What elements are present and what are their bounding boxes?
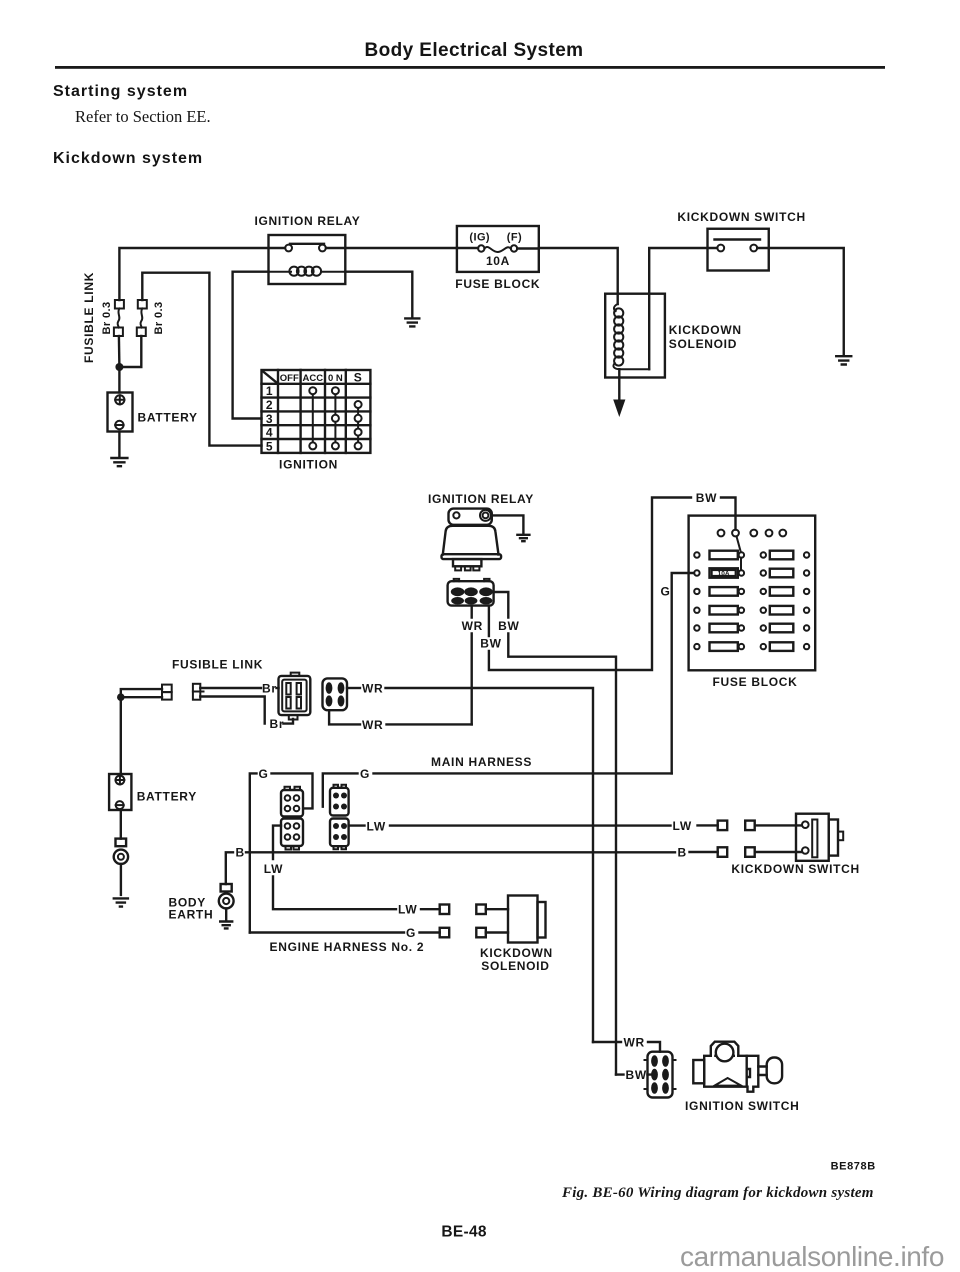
connector pins row 1 [451, 587, 465, 596]
ground (lower relay) [517, 535, 529, 541]
battery minus terminal [115, 421, 123, 429]
ignition switch barrel circle [716, 1044, 734, 1062]
svg-text:LW: LW [264, 862, 283, 876]
svg-text:IGNITION SWITCH: IGNITION SWITCH [685, 1099, 800, 1113]
relay pictorial bracket [449, 509, 492, 525]
svg-text:0 N: 0 N [328, 373, 343, 384]
svg-text:Refer to Section EE.: Refer to Section EE. [75, 107, 211, 126]
svg-text:FUSE BLOCK: FUSE BLOCK [713, 675, 798, 689]
svg-text:WR: WR [624, 1036, 645, 1050]
svg-text:Br 0.3: Br 0.3 [153, 302, 165, 335]
solenoid coil (top diagram) [614, 304, 618, 311]
svg-text:G: G [661, 585, 671, 599]
fusible link plug B [193, 684, 200, 692]
relay base [442, 554, 502, 559]
connector square B switch left [718, 847, 728, 857]
wire WR to ignition switch connector [593, 1042, 660, 1052]
battery (top diagram) [108, 393, 133, 432]
svg-text:IGNITION: IGNITION [279, 458, 338, 472]
wire G1: bracket down the left and to white connector [250, 773, 313, 932]
wire: battery negative down [120, 810, 122, 839]
wire WR1 continues right then down [386, 688, 594, 1042]
holder slots [286, 683, 290, 695]
svg-text:WR: WR [462, 619, 483, 633]
ground (kickdown switch, top) [836, 356, 851, 364]
wire: G square to solenoid [486, 931, 508, 933]
wire: battery to ground [118, 432, 120, 457]
svg-text:IGNITION RELAY: IGNITION RELAY [254, 214, 360, 228]
svg-text:G: G [406, 926, 416, 940]
ground (lower battery) [114, 898, 128, 906]
wire B: body earth up, right across to kickdown switch [226, 852, 718, 884]
connector square LW switch right [745, 821, 755, 831]
relay 3-pin connector (lower) [448, 581, 494, 605]
fuse element [485, 247, 511, 252]
relay bracket hole left [453, 512, 459, 518]
ground (battery, top diagram) [111, 458, 127, 466]
body earth terminal [221, 884, 232, 892]
kickdown switch contact holes [802, 821, 809, 828]
svg-text:G: G [360, 767, 370, 781]
wire: switch right to ground [757, 248, 844, 355]
wire: solenoid to kickdown switch [649, 248, 717, 369]
relay coil [269, 271, 292, 273]
wire: plug B to Br label (top strand) [200, 687, 261, 689]
wire: relay bracket to ground (lower) [492, 515, 524, 533]
svg-text:Br 0.3: Br 0.3 [101, 302, 113, 335]
svg-text:LW: LW [673, 819, 692, 833]
svg-text:Kickdown system: Kickdown system [53, 150, 203, 167]
wire BW2 continues into fuse block top [721, 498, 736, 530]
fuse block (lower diagram) [689, 516, 816, 671]
ground (body earth) [220, 922, 232, 929]
relay lower block [453, 559, 481, 566]
key head [767, 1058, 782, 1084]
fusible link 2 top square [138, 300, 147, 309]
wire: battery positive riser with two link feeds [121, 689, 162, 774]
svg-text:2: 2 [266, 398, 273, 412]
wire: link2 bottom to junction [119, 336, 141, 367]
svg-text:FUSIBLE LINK: FUSIBLE LINK [82, 272, 96, 363]
junction node (battery feed) [115, 363, 123, 371]
svg-text:Fig. BE-60 Wiring diagram for: Fig. BE-60 Wiring diagram for kickdown s… [561, 1185, 874, 1201]
svg-text:BE878B: BE878B [831, 1161, 876, 1173]
relay contact right [319, 245, 326, 252]
svg-text:(IG): (IG) [469, 232, 490, 244]
svg-text:BW: BW [626, 1068, 647, 1082]
wire WR2: black connector bottom pin down and right [329, 710, 360, 724]
svg-text:FUSIBLE LINK: FUSIBLE LINK [172, 658, 263, 672]
wire: fuse to block edge right [517, 247, 539, 249]
fuse block top terminals [718, 530, 787, 537]
ignition switch left stub [693, 1060, 704, 1083]
ignition switch body [704, 1056, 747, 1087]
wire: LW square to switch body [755, 824, 802, 826]
wire: body earth eyelet to ground [225, 908, 227, 920]
wire G: fuse block 10A left terminal down to main harness [672, 573, 694, 773]
wire: LW square to solenoid [486, 908, 508, 910]
header rule [55, 66, 885, 69]
wire G2: black connector up and right to fuse block riser [323, 773, 672, 806]
connector square B switch right [745, 847, 755, 857]
ignition key switch table [262, 370, 371, 453]
arrow below solenoid [618, 369, 620, 401]
fuse terminal left [478, 245, 484, 251]
ignition switch pictorial: mounting bracket [711, 1042, 739, 1056]
table row numbers [266, 384, 273, 453]
svg-text:KICKDOWN: KICKDOWN [669, 323, 742, 337]
svg-text:10A: 10A [718, 571, 730, 578]
connector square LW right [476, 905, 486, 915]
svg-text:B: B [236, 846, 245, 860]
wire BW2: relay connector pin down, over, up to fuse block [489, 498, 691, 671]
fusible link 2 bottom square [137, 328, 146, 337]
svg-text:ACC: ACC [303, 373, 324, 384]
svg-text:S: S [354, 371, 363, 385]
8-pin white connector bottom half [281, 819, 303, 847]
kickdown switch (lower) body [796, 814, 829, 861]
svg-text:BW: BW [498, 619, 519, 633]
wire LW2: black connector right to kickdown switch [349, 824, 718, 827]
8-pin white connector top half [281, 790, 303, 817]
connector square LW switch left [718, 821, 728, 831]
battery plus terminal (lower) [116, 776, 125, 785]
svg-text:4: 4 [266, 426, 273, 440]
svg-text:BE-48: BE-48 [441, 1224, 487, 1241]
ground (relay, top diagram) [405, 318, 419, 326]
kickdown switch contact right [750, 245, 757, 252]
svg-text:KICKDOWN SWITCH: KICKDOWN SWITCH [677, 210, 805, 224]
relay bracket hole right (double) [480, 510, 491, 521]
svg-text:BATTERY: BATTERY [138, 411, 198, 425]
ignition switch triangle mark [715, 1078, 742, 1086]
connector pins row 2 [451, 597, 464, 604]
fuse block box (top) [457, 226, 539, 272]
wire BW to ignition switch connector [616, 1073, 651, 1075]
svg-text:(F): (F) [507, 232, 522, 244]
wire WR2 continues right to relay WR drop [387, 723, 472, 725]
right column fuses [761, 551, 810, 651]
table header labels [280, 371, 363, 385]
wire: fuse block to solenoid coil top [539, 248, 618, 304]
kickdown switch bar [715, 238, 761, 240]
kickdown solenoid (lower) cap [538, 902, 546, 938]
svg-text:SOLENOID: SOLENOID [669, 337, 737, 351]
connector square G left [440, 928, 450, 938]
svg-text:3: 3 [266, 412, 273, 426]
wire BW1: relay connector right, down, over, down to ignition switch [494, 592, 616, 1075]
wire WR1: black connector to WR vertical junction [347, 687, 360, 689]
wire: relay right contact to fuse block [326, 247, 457, 249]
svg-text:1: 1 [266, 384, 273, 398]
svg-text:SOLENOID: SOLENOID [481, 959, 549, 973]
left column fuses [694, 551, 744, 651]
kickdown switch slot [812, 820, 817, 858]
svg-text:OFF: OFF [280, 373, 299, 384]
svg-text:ENGINE HARNESS No. 2: ENGINE HARNESS No. 2 [270, 940, 425, 954]
wire: junction to battery [118, 367, 120, 393]
ignition switch rear section [747, 1056, 759, 1092]
fusible link 1 top square [115, 300, 124, 309]
key shaft [758, 1067, 766, 1076]
wire: relay coil right to ground [345, 272, 412, 317]
wire LW row to connector squares [421, 908, 440, 910]
svg-text:KICKDOWN: KICKDOWN [480, 946, 553, 960]
svg-text:MAIN HARNESS: MAIN HARNESS [431, 755, 532, 769]
black 4-pin connector (lower fusible link) [323, 678, 348, 710]
svg-text:B: B [678, 846, 687, 860]
kickdown switch contact left [717, 245, 724, 252]
fusible link 2 element [141, 309, 143, 328]
svg-text:carmanualsonline.info: carmanualsonline.info [680, 1241, 944, 1272]
svg-text:Br: Br [270, 717, 285, 731]
fusible link 1 bottom square [114, 328, 123, 337]
relay can body [443, 526, 499, 555]
svg-text:IGNITION RELAY: IGNITION RELAY [428, 492, 534, 506]
fusible link 1 element [118, 309, 120, 328]
ignition relay box (top) [269, 235, 346, 284]
svg-text:KICKDOWN SWITCH: KICKDOWN SWITCH [731, 862, 859, 876]
battery plus terminal [115, 395, 124, 404]
svg-text:BW: BW [480, 637, 501, 651]
svg-text:BW: BW [696, 491, 717, 505]
link from BW terminal to fuse 1 [737, 536, 742, 570]
wire: B square to switch body [755, 851, 802, 853]
svg-text:LW: LW [398, 903, 417, 917]
wire: eyelet down to ground [120, 864, 122, 895]
battery cable terminal [116, 839, 127, 847]
wire LW1: white connector left side down [273, 826, 396, 910]
wire WR: relay connector down to harness WR joint [471, 606, 473, 725]
svg-text:LW: LW [367, 819, 386, 833]
svg-text:EARTH: EARTH [169, 908, 214, 922]
fusible link plug A [162, 685, 172, 693]
table contact circles [309, 387, 361, 449]
relay contact bar [290, 243, 324, 245]
kickdown switch tab [838, 832, 843, 841]
table contact lines [313, 394, 358, 442]
svg-text:5: 5 [266, 439, 273, 453]
8-pin black connector top half [330, 788, 349, 816]
battery minus terminal (lower) [116, 801, 124, 809]
fusible link holder (white connector) [279, 676, 311, 715]
8-pin black connector bottom half [330, 819, 349, 847]
svg-text:WR: WR [362, 718, 383, 732]
junction node (lower battery feed) [117, 693, 125, 701]
svg-text:10A: 10A [486, 254, 510, 268]
svg-text:FUSE BLOCK: FUSE BLOCK [455, 277, 540, 291]
relay pins [455, 566, 461, 570]
wire: lower Br to holder bottom tab [283, 719, 293, 724]
svg-text:Starting system: Starting system [53, 83, 188, 100]
wire: plug B bottom strand down to lower Br [200, 697, 264, 724]
connector square G right [476, 928, 486, 938]
wire: relay left contact to fusible link corner [119, 248, 285, 300]
svg-text:WR: WR [362, 682, 383, 696]
wire: link1 to junction [118, 336, 121, 367]
kickdown switch box (top) [708, 229, 769, 271]
kickdown switch right cap [829, 820, 838, 856]
kickdown solenoid box (top) [605, 294, 665, 378]
wire: link2 up and over to table row 5 [142, 273, 261, 446]
wire: into fuse block left [457, 247, 478, 249]
svg-text:Body Electrical System: Body Electrical System [365, 40, 584, 61]
wire: relay coil left down to ignition table row 3 [233, 272, 269, 419]
kickdown solenoid (lower) body [508, 896, 538, 943]
svg-text:G: G [259, 767, 269, 781]
battery (lower diagram) [109, 774, 131, 810]
ignition switch connector [648, 1052, 673, 1098]
relay contact left [285, 245, 292, 252]
G engine-harness row: bracket bottom to solenoid [250, 931, 440, 933]
svg-text:BATTERY: BATTERY [137, 790, 197, 804]
connector square LW left [440, 905, 450, 915]
svg-text:Br: Br [262, 682, 277, 696]
fuse terminal right [511, 245, 517, 251]
wire: Br to fusible link holder [277, 687, 279, 689]
